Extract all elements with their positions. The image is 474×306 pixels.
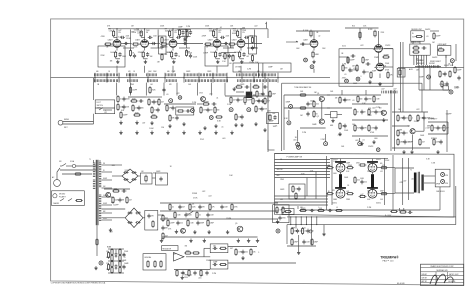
- svg-text:B+ 460V: B+ 460V: [385, 215, 392, 217]
- resistor R66: [299, 107, 307, 109]
- T1 tap wire: [102, 204, 113, 206]
- control pot tick: [243, 79, 245, 82]
- ground: [254, 122, 257, 126]
- wire: [102, 208, 126, 210]
- svg-text:2.2M: 2.2M: [184, 37, 188, 39]
- resistor R140: [250, 248, 252, 256]
- molex interconnect wire: [398, 66, 464, 68]
- ground: [240, 123, 243, 127]
- svg-text:3.3K: 3.3K: [106, 263, 109, 265]
- wire: [321, 102, 323, 120]
- svg-text:.1: .1: [258, 252, 260, 254]
- control pot tick: [153, 79, 155, 82]
- resistor R93: [454, 66, 456, 74]
- svg-text:.047: .047: [422, 142, 425, 144]
- jack J21: [441, 173, 445, 177]
- control pot tick: [197, 79, 199, 82]
- svg-text:680: 680: [167, 71, 170, 73]
- svg-text:2.2M: 2.2M: [186, 26, 190, 28]
- capacitor C70: [360, 180, 363, 185]
- svg-text:470K: 470K: [106, 257, 110, 259]
- svg-text:.01: .01: [344, 74, 347, 76]
- wire: [340, 172, 342, 174]
- grid-level wire: [179, 47, 190, 49]
- resistor R1: [113, 30, 115, 38]
- svg-text:500PF: 500PF: [432, 57, 438, 59]
- wire: [267, 140, 269, 150]
- wire: [93, 160, 95, 163]
- svg-text:22MF: 22MF: [123, 260, 127, 262]
- svg-text:.01: .01: [120, 99, 122, 101]
- plate resistor node for V2A: [172, 29, 174, 40]
- front panel bus wire: [51, 77, 330, 79]
- capacitor C92: [296, 229, 299, 234]
- wire: [99, 160, 101, 163]
- triode tube V2A: [167, 40, 177, 48]
- title block row line: [421, 271, 464, 273]
- wire: [408, 158, 410, 200]
- svg-text:120PF: 120PF: [249, 62, 254, 64]
- dropper wire: [316, 217, 318, 225]
- diode D6: [135, 212, 140, 215]
- capacitor C79: [184, 213, 187, 218]
- svg-text:10MF: 10MF: [408, 141, 414, 143]
- svg-text:SEND: SEND: [64, 119, 70, 121]
- ground: [135, 131, 138, 135]
- signal wire: [177, 43, 203, 45]
- control pot tick: [147, 79, 149, 82]
- wire: [108, 272, 124, 274]
- svg-text:10MF: 10MF: [365, 60, 369, 62]
- capacitor C59: [436, 126, 439, 131]
- capacitor C38: [175, 116, 178, 121]
- control pot tick: [275, 79, 277, 82]
- wire: [300, 127, 326, 129]
- wire: [395, 192, 414, 194]
- tone capacitor tick: [97, 73, 99, 76]
- wire: [296, 30, 330, 32]
- control pot tick: [188, 79, 190, 82]
- svg-text:.047: .047: [109, 231, 112, 233]
- wire: [412, 41, 414, 44]
- wire: [95, 107, 115, 109]
- svg-text:500PF: 500PF: [440, 128, 445, 130]
- resistor R88: [439, 70, 441, 78]
- plate junction wire: [170, 36, 173, 38]
- tone capacitor tick: [184, 73, 186, 76]
- svg-text:2.2M: 2.2M: [367, 115, 372, 117]
- wire: [103, 109, 112, 111]
- resistor R121: [152, 220, 154, 228]
- bus junction stub wire: [212, 73, 214, 83]
- jack J9: [229, 108, 233, 112]
- svg-text:.022: .022: [202, 191, 206, 193]
- stage output drop wire: [116, 66, 118, 73]
- svg-text:.01: .01: [304, 231, 306, 233]
- reverb return wire: [284, 107, 330, 109]
- svg-text:2.2M: 2.2M: [132, 32, 137, 34]
- control pot tick: [272, 79, 274, 82]
- svg-text:1K: 1K: [133, 71, 135, 73]
- svg-text:12AX7: 12AX7: [135, 39, 140, 42]
- resistor R8: [171, 51, 173, 59]
- drop wire: [116, 83, 118, 96]
- title block box: [421, 264, 464, 285]
- svg-text:BRIGHT: BRIGHT: [417, 63, 425, 65]
- resistor R158: [291, 227, 293, 235]
- wire: [225, 95, 253, 97]
- terminal box: [443, 86, 448, 90]
- triode tube V3B: [308, 40, 318, 48]
- svg-text:120PF: 120PF: [368, 146, 374, 148]
- svg-text:10K: 10K: [280, 169, 283, 171]
- speaker jacks box: [435, 169, 450, 187]
- resistor R70: [368, 108, 370, 116]
- resistor R76: [409, 114, 411, 122]
- T1 tap wire: [102, 171, 113, 173]
- capacitor C74: [147, 214, 150, 219]
- resistor R161: [311, 238, 313, 246]
- svg-text:.022: .022: [104, 112, 107, 114]
- jack: [309, 230, 312, 233]
- plate feed wire V3B: [313, 31, 315, 40]
- svg-text:2.2M: 2.2M: [118, 36, 123, 38]
- coupling cap tick: [385, 91, 387, 94]
- svg-text:120PF: 120PF: [170, 223, 175, 225]
- stage output drop wire: [144, 66, 146, 73]
- triode tube V4A: [373, 45, 383, 53]
- bus junction stub wire: [226, 73, 228, 83]
- capacitor C86: [241, 250, 244, 255]
- resistor R6: [132, 43, 140, 45]
- T1 secondary winding upper: [99, 162, 101, 164]
- wire: [403, 208, 405, 211]
- ground: [150, 121, 153, 125]
- jack J20 power amp in: [297, 145, 301, 149]
- svg-text:250K: 250K: [414, 121, 419, 123]
- resistor R110: [284, 210, 292, 212]
- diode D3: [123, 178, 128, 181]
- cathode lead of V1B: [144, 47, 146, 50]
- control pot tick: [100, 79, 102, 82]
- tone capacitor tick: [146, 73, 148, 76]
- wire: [253, 94, 256, 96]
- resistor R20: [224, 52, 226, 60]
- tremolo rail wire: [392, 111, 428, 113]
- wire: [340, 159, 342, 162]
- svg-text:.02: .02: [318, 36, 320, 38]
- svg-text:.001: .001: [411, 178, 415, 180]
- tone capacitor tick: [112, 73, 114, 76]
- resistor R3: [104, 43, 112, 45]
- capacitor C26: [245, 85, 250, 88]
- svg-text:500PF: 500PF: [280, 189, 285, 191]
- resistor R137: [219, 247, 227, 249]
- capacitor C66: [408, 211, 413, 214]
- svg-text:22MF: 22MF: [367, 163, 371, 165]
- ground: [322, 232, 325, 236]
- svg-text:68K: 68K: [103, 211, 106, 213]
- capacitor C34: [152, 100, 155, 105]
- svg-text:.022: .022: [208, 196, 211, 198]
- panel pot tick: [422, 65, 424, 68]
- ground: [297, 251, 300, 255]
- capacitor C71: [122, 189, 127, 192]
- tone capacitor tick: [260, 73, 262, 76]
- resistor R19: [186, 30, 188, 38]
- drop wire: [262, 63, 264, 78]
- wire: [352, 119, 388, 121]
- wire: [162, 236, 258, 238]
- cathode lead of V1A: [116, 47, 118, 50]
- aux bus wire: [402, 42, 404, 112]
- panel drop wire: [418, 55, 420, 65]
- plate junction wire: [214, 36, 217, 38]
- coupling network box V1B: [159, 36, 167, 54]
- wire: [297, 130, 299, 142]
- coupling cap tick: [392, 91, 394, 94]
- filter cap can C52: [145, 211, 158, 231]
- capacitor C4: [146, 52, 149, 57]
- ground: [181, 276, 184, 280]
- bias feed wire: [275, 201, 329, 203]
- capacitor C14: [189, 30, 192, 35]
- wire: [372, 159, 374, 162]
- svg-text:1K: 1K: [280, 159, 282, 161]
- tone capacitor tick: [109, 73, 111, 76]
- capacitor C46: [306, 102, 309, 107]
- svg-text:22MF: 22MF: [439, 84, 445, 86]
- resistor R77: [417, 114, 419, 122]
- AC safety ground wire: [62, 173, 92, 175]
- svg-text:120PF: 120PF: [385, 45, 391, 47]
- ground: [360, 142, 363, 146]
- capacitor C78: [220, 205, 223, 210]
- wire: [451, 63, 453, 66]
- resistor R91: [399, 69, 401, 77]
- wire: [164, 103, 196, 105]
- mixer feed wire: [267, 96, 269, 152]
- bus junction stub wire: [129, 73, 131, 83]
- speaker rail wire A: [287, 216, 456, 218]
- svg-text:.022: .022: [406, 118, 409, 120]
- svg-text:EK-00146: EK-00146: [397, 283, 405, 285]
- cathode junction wire: [143, 58, 147, 60]
- grid-level wire: [223, 47, 234, 49]
- control pot tick: [115, 79, 117, 82]
- svg-text:2.2M: 2.2M: [192, 102, 197, 104]
- capacitor C37: [186, 109, 191, 112]
- footswitch box: [95, 100, 115, 114]
- control pot tick: [185, 79, 187, 82]
- drop wire: [145, 83, 147, 96]
- svg-text:500PF: 500PF: [350, 60, 355, 62]
- wire: [341, 90, 343, 95]
- B+ rail drop wire: [267, 29, 269, 38]
- capacitor C55: [402, 116, 405, 121]
- resistor R108: [292, 185, 294, 193]
- bus junction stub wire: [183, 73, 185, 83]
- control pot tick: [97, 79, 99, 82]
- cathode lead of V2A: [172, 47, 174, 50]
- T1 tap wire: [102, 219, 113, 221]
- svg-text:10K: 10K: [106, 251, 109, 253]
- svg-text:680: 680: [96, 71, 99, 73]
- wire: [339, 56, 348, 58]
- svg-text:.01: .01: [199, 215, 201, 217]
- svg-text:10K: 10K: [141, 171, 144, 173]
- power tube V5 6L6: [335, 161, 346, 172]
- control pot tick: [191, 79, 193, 82]
- tone capacitor tick: [190, 73, 192, 76]
- T1 tap wire: [102, 196, 113, 198]
- plate resistor node for V3A: [240, 29, 242, 40]
- transistor Q7: [237, 226, 243, 232]
- DC rail wire: [160, 202, 278, 204]
- ground: [144, 60, 147, 64]
- wire: [347, 57, 349, 64]
- bias feed wire: [275, 198, 329, 200]
- svg-text:.022: .022: [180, 223, 183, 225]
- resistor R62: [269, 114, 271, 122]
- svg-text:22MF: 22MF: [138, 52, 142, 54]
- control pot tick: [194, 79, 196, 82]
- svg-text:.01: .01: [166, 94, 169, 96]
- resistor R68: [339, 122, 341, 130]
- capacitor C83: [278, 216, 281, 221]
- svg-text:.047: .047: [246, 56, 249, 58]
- vertical feed wire: [390, 90, 392, 151]
- wire: [352, 135, 388, 137]
- wire: [286, 225, 288, 244]
- plate resistor node for V1A: [116, 29, 118, 40]
- control pot tick: [209, 79, 211, 82]
- svg-text:PAG™ 120: PAG™ 120: [383, 260, 395, 263]
- control pot tick: [203, 79, 205, 82]
- output transformer secondary winding: [421, 175, 423, 191]
- wire: [429, 68, 431, 90]
- control pot tick: [136, 79, 138, 82]
- svg-text:680: 680: [360, 99, 363, 101]
- resistor R148: [119, 266, 121, 274]
- resistor R80: [419, 138, 421, 146]
- control pot tick: [220, 79, 222, 82]
- resistor R95: [356, 64, 358, 72]
- resistor R145: [119, 248, 121, 256]
- resistor R117: [112, 190, 120, 192]
- svg-text:2.2M: 2.2M: [247, 69, 251, 71]
- filter cap can C50: [141, 173, 153, 184]
- resistor R63: [313, 100, 315, 108]
- resistor R18: [178, 29, 180, 37]
- resistor R67: [339, 96, 341, 104]
- capacitor C19: [151, 42, 156, 45]
- wire: [146, 96, 162, 98]
- ground: [119, 121, 122, 125]
- svg-text:10MF: 10MF: [400, 142, 404, 144]
- capacitor C25: [362, 70, 365, 75]
- drop wire: [163, 83, 165, 96]
- grid wire V3B: [300, 43, 308, 45]
- mixer network wire: [177, 29, 191, 31]
- control pot tick: [223, 79, 225, 82]
- wire: [70, 165, 72, 167]
- wire: [455, 44, 457, 61]
- AC power cord: [54, 180, 61, 187]
- svg-text:.047: .047: [393, 88, 397, 90]
- svg-text:.047: .047: [403, 180, 406, 182]
- jack J1: [304, 58, 308, 62]
- svg-text:.047: .047: [360, 194, 363, 196]
- resistor R59: [252, 97, 254, 105]
- ground: [436, 150, 439, 154]
- cord wire: [57, 168, 60, 180]
- jack J12: [287, 121, 291, 125]
- capacitor C47: [306, 112, 309, 117]
- svg-text:22MF: 22MF: [280, 179, 284, 181]
- interstage signal wire: [221, 43, 228, 45]
- capacitor C41: [236, 98, 239, 103]
- control pot tick: [264, 79, 266, 82]
- svg-text:100K: 100K: [149, 128, 154, 130]
- svg-text:INTERCONNECT: INTERCONNECT: [430, 61, 441, 63]
- capacitor C17: [251, 46, 254, 51]
- panel drop wire: [416, 55, 418, 65]
- ground: [312, 60, 315, 64]
- ground: [182, 122, 185, 126]
- capacitor C88: [122, 265, 125, 270]
- resistor R55: [215, 116, 223, 118]
- svg-text:22MF: 22MF: [213, 262, 217, 264]
- tone capacitor tick: [211, 73, 213, 76]
- T1 secondary winding lower: [99, 194, 101, 196]
- svg-text:Q2: Q2: [317, 116, 319, 118]
- speaker return riser wire: [455, 186, 457, 225]
- capacitor C32: [139, 99, 144, 102]
- resistor R34: [252, 86, 260, 88]
- wire: [236, 91, 244, 93]
- cathode lead V3B: [313, 47, 315, 50]
- control pot tick: [214, 79, 216, 82]
- svg-text:2.2M: 2.2M: [190, 223, 194, 225]
- wire: [392, 147, 430, 149]
- resistor R126: [209, 203, 211, 211]
- wire: [221, 52, 236, 54]
- svg-text:10MF: 10MF: [210, 223, 214, 225]
- resistor R42: [130, 100, 138, 102]
- diode D7: [127, 221, 132, 224]
- tone capacitor tick: [135, 73, 137, 76]
- svg-text:680: 680: [380, 163, 383, 165]
- resistor R98: [326, 167, 334, 169]
- capacitor C54: [364, 97, 367, 102]
- coupling choke bar left: [339, 174, 342, 187]
- svg-text:.1: .1: [318, 207, 319, 209]
- wire: [158, 214, 163, 216]
- control pot tick: [103, 79, 105, 82]
- svg-text:.01: .01: [426, 36, 429, 38]
- resistor R4: [140, 30, 142, 38]
- resistor R15: [228, 43, 236, 45]
- capacitor C15: [228, 54, 231, 59]
- svg-text:470K: 470K: [445, 183, 448, 185]
- resistor R52: [202, 103, 210, 105]
- resistor R39: [117, 95, 119, 103]
- resistor R47: [151, 106, 153, 114]
- svg-text:POWER AMP SE: POWER AMP SE: [287, 156, 303, 159]
- resistor R160: [291, 238, 293, 246]
- control pot tick: [206, 79, 208, 82]
